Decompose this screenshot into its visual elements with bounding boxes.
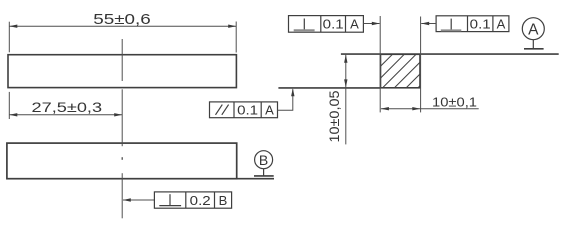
hatch lines of cross-section xyxy=(347,54,452,88)
dimension 27,5±0,3 dimension line xyxy=(9,114,122,116)
extension line left of square xyxy=(379,16,381,112)
svg-text:0.2: 0.2 xyxy=(190,193,211,208)
leader arrowhead of frame F2 xyxy=(421,22,429,25)
dimension 27,5±0,3 arrowheads xyxy=(9,113,122,116)
bar R2 (lower plate outline) xyxy=(7,143,237,179)
top surface line (right-hand view) xyxy=(341,53,559,55)
dimension 55±0,6 arrowheads xyxy=(9,25,236,28)
vertical centerline through both bars xyxy=(121,39,123,218)
feature control frame F3 box (// 0.1 A) xyxy=(210,102,278,118)
svg-text:B: B xyxy=(219,193,228,208)
leader line to frame ⊥ 0.2 B xyxy=(123,199,154,201)
svg-text:B: B xyxy=(259,152,268,168)
feature control frame F1 box (⊥ 0.1 A, upper left) xyxy=(289,16,364,33)
leader line from frame F3 xyxy=(278,89,293,110)
perpendicularity symbol in frame F4 xyxy=(159,194,181,205)
hatched cross-section square outline xyxy=(381,54,421,88)
datum A symbol circle and leg xyxy=(522,18,544,49)
dimension 10±0,1 dimension line xyxy=(381,108,479,110)
dimension 10±0,1 arrowheads xyxy=(381,107,420,110)
leader arrowhead at centerline xyxy=(123,198,131,201)
feature control frame F2 box (⊥ 0.1 A, upper right) xyxy=(436,16,509,32)
svg-text:A: A xyxy=(497,16,506,31)
dimension 27,5±0,3 extension line xyxy=(8,92,10,119)
svg-text:10±0,05: 10±0,05 xyxy=(327,90,342,142)
dimension 55±0,6 dimension line xyxy=(9,25,236,27)
svg-text:0.1: 0.1 xyxy=(323,16,344,31)
lower step surface line (right-hand view) xyxy=(278,87,380,89)
dimension 10±0,05 arrowheads xyxy=(344,55,347,88)
leader line from frame F1 xyxy=(363,23,379,25)
extension line right of square xyxy=(420,17,422,113)
svg-text:0.1: 0.1 xyxy=(470,16,491,31)
svg-text:A: A xyxy=(265,102,274,117)
surface line extension of R2 bottom under datum B xyxy=(237,178,274,180)
leader arrowhead of frame F3 xyxy=(291,88,294,96)
bar R1 (upper plate outline) xyxy=(8,55,236,88)
perpendicularity symbol in frame F1 xyxy=(303,19,305,31)
leader line from frame F2 xyxy=(421,23,436,25)
svg-text:0.1: 0.1 xyxy=(237,102,258,117)
dimension 55±0,6 extension lines xyxy=(9,22,236,53)
datum B symbol circle and leg xyxy=(254,151,274,176)
feature control frame F4 box (⊥ 0.2 B) xyxy=(154,192,231,208)
svg-text:A: A xyxy=(528,21,539,38)
perpendicularity symbol in frame F2 xyxy=(450,19,452,30)
parallelism symbol in frame F3 xyxy=(216,105,229,115)
svg-text:10±0,1: 10±0,1 xyxy=(432,94,477,109)
leader arrowhead of frame F1 xyxy=(372,22,380,25)
svg-text:27,5±0,3: 27,5±0,3 xyxy=(32,100,103,115)
svg-text:A: A xyxy=(350,16,359,31)
dimension 10±0,05 dimension line (vertical) xyxy=(345,55,347,145)
svg-text:55±0,6: 55±0,6 xyxy=(93,12,151,28)
